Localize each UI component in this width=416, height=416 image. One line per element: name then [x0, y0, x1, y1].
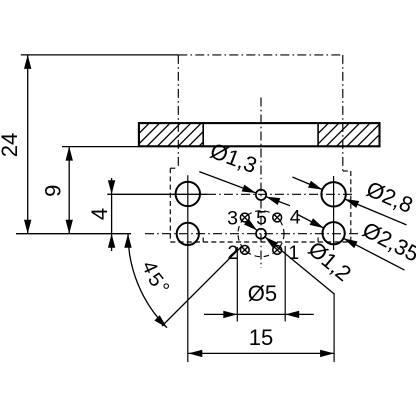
leader Ø1,3	[199, 172, 290, 206]
dimension 15 line	[188, 350, 334, 357]
pin 1 contact	[273, 246, 282, 255]
hole bottom-left Ø2,35	[177, 223, 199, 245]
dimension 24 label	[0, 133, 22, 157]
hidden body step right	[343, 170, 351, 172]
label Ø1,3	[207, 138, 260, 178]
hidden body notch right	[317, 238, 319, 243]
line 45 degrees	[162, 246, 242, 326]
flange hatch divider right	[317, 123, 319, 146]
pin label 2	[227, 242, 238, 264]
svg-text:4: 4	[290, 207, 301, 229]
label Ø1,2	[304, 236, 357, 286]
dimension Ø5 label	[248, 281, 277, 306]
dimension Ø5 line	[204, 311, 314, 318]
extension line Ø5 right	[284, 246, 286, 322]
svg-text:5: 5	[256, 208, 267, 230]
pin 5 center hole Ø1,2	[256, 229, 266, 239]
dimension 4 line	[108, 178, 115, 251]
label Ø2,35	[359, 217, 416, 267]
hole bottom-right Ø2,35	[323, 222, 345, 244]
axis right holes	[333, 176, 335, 250]
svg-text:3: 3	[227, 208, 238, 230]
pin 2 contact	[240, 246, 249, 255]
extension line 15 right	[333, 293, 335, 362]
phantom line barrel left	[177, 55, 179, 168]
pin label 4	[290, 207, 301, 229]
hidden body step left	[170, 167, 178, 169]
svg-text:4: 4	[87, 208, 112, 220]
centerline main horizontal	[16, 233, 359, 235]
extension line top (24 dim)	[21, 54, 179, 56]
label Ø2,8	[363, 176, 416, 218]
flange hatch divider left	[202, 123, 204, 146]
flange hatch right	[295, 123, 416, 146]
svg-text:24: 24	[0, 133, 22, 157]
hole top-right Ø2,8	[321, 182, 345, 206]
hidden body edge left	[169, 168, 171, 242]
svg-text:9: 9	[41, 185, 66, 197]
pin 3 contact	[240, 213, 249, 222]
dimension 24 line	[24, 55, 31, 234]
svg-text:2: 2	[227, 242, 238, 264]
pin label 5	[256, 208, 267, 230]
dimension 9 line	[66, 147, 73, 234]
centerline vertical axis	[260, 98, 262, 269]
flange outline	[139, 123, 380, 146]
pitch circle Ø5 dashed	[238, 211, 284, 257]
hidden body edge right	[350, 171, 352, 242]
dimension 4 label	[87, 208, 112, 220]
axis left holes	[187, 175, 189, 362]
phantom line barrel top	[178, 54, 343, 56]
pin label 1	[288, 242, 299, 264]
flange hatch left	[116, 123, 243, 146]
pin label 3	[227, 208, 238, 230]
hidden body bottom edge	[170, 241, 350, 243]
phantom line barrel right	[342, 55, 344, 171]
leader Ø2,35	[298, 215, 405, 271]
svg-text:Ø5: Ø5	[248, 281, 277, 306]
leader Ø2,8	[292, 177, 406, 225]
hole center top Ø1,3	[256, 190, 266, 200]
arc 45 degrees	[124, 234, 167, 328]
leader Ø1,2	[244, 219, 334, 294]
pin 4 contact	[273, 213, 282, 222]
extension line 9	[62, 146, 139, 148]
extension line Ø5 left	[236, 247, 238, 322]
label 45 degrees	[137, 258, 173, 301]
centerline top holes	[107, 193, 353, 195]
dimension 15 label	[249, 325, 273, 350]
svg-text:15: 15	[249, 325, 273, 350]
hole top-left Ø2,8	[176, 182, 200, 206]
dimension 9 label	[41, 185, 66, 197]
hidden body notch left	[202, 238, 204, 243]
